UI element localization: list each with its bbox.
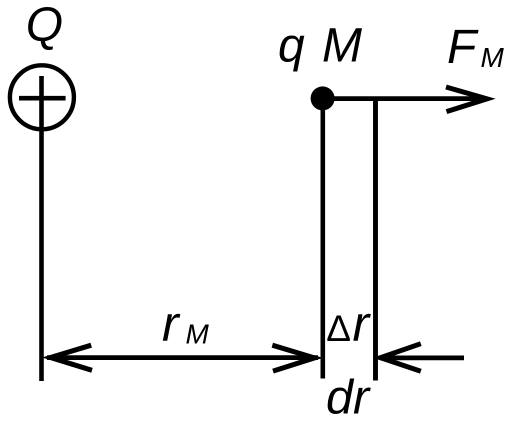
svg-text:Δ: Δ [326, 308, 351, 349]
right dimension shaft toward dr [380, 356, 464, 361]
dimension arrowhead right (points right) [272, 345, 314, 371]
vertical reference line at r+dr [373, 98, 378, 381]
svg-text:Q: Q [26, 0, 63, 52]
force arrow F_M open head [446, 87, 487, 112]
svg-text:q: q [278, 20, 305, 73]
dimension arrowhead left (points left) [51, 345, 93, 370]
vertical reference line below point M [320, 98, 325, 379]
svg-text:r: r [162, 296, 181, 352]
plus sign horizontal bar [19, 96, 66, 101]
dimension line r_M shaft [47, 355, 318, 360]
svg-text:M: M [481, 42, 505, 73]
plus sign vertical / axis line from Q down [39, 76, 44, 381]
right dimension arrowhead (points left at dr line) [381, 344, 421, 372]
point M dot [311, 86, 335, 110]
svg-text:r: r [353, 296, 372, 352]
svg-text:dr: dr [326, 370, 371, 424]
svg-text:F: F [447, 21, 479, 74]
force arrow F_M shaft [323, 96, 484, 101]
svg-text:M: M [186, 319, 210, 350]
svg-text:M: M [322, 19, 362, 72]
charge Q circle symbol [10, 65, 74, 129]
